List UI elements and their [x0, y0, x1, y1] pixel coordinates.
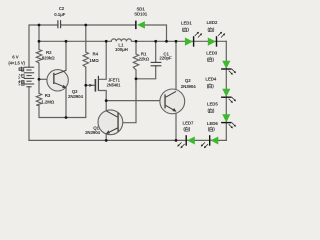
wire: R4 bottom lead to gate node: [85, 67, 87, 85]
wire: Q3 collector up to rail2: [65, 41, 67, 70]
svg-text:LED2: LED2: [207, 20, 218, 25]
svg-text:2N3904: 2N3904: [181, 84, 196, 89]
svg-text:LED7: LED7: [183, 121, 194, 126]
LED5: [221, 114, 236, 128]
diode SD1 SD101 schottky: [135, 21, 145, 30]
svg-text:1MΩ: 1MΩ: [89, 58, 99, 63]
resistor R1 22k: [133, 54, 138, 70]
wire: rail2 main horizontal: [39, 40, 111, 42]
池: [18, 74, 24, 79]
label LED7 (white): [183, 127, 190, 132]
wire: R3 bottom to emitter node line up to gate node: [39, 85, 86, 117]
junction: Q3 collector on +V rail: [65, 40, 68, 43]
wire: JFET source lead down to node: [99, 91, 106, 101]
wire: Q3 emitter down to node: [65, 88, 67, 118]
wire: C1 bottom lead to R1 node: [136, 66, 156, 79]
junction: Q1 emitter on bottom rail: [105, 139, 108, 142]
junction: Q2 collector on +V rail: [175, 40, 178, 43]
junction: R1 top on +V rail: [135, 40, 138, 43]
resistor R3 1.2M: [36, 93, 41, 105]
wire: JFET drain lead to rail2: [99, 41, 106, 79]
wire: Q3 base: [39, 78, 53, 80]
wire: Q1 emitter to bottom rail: [105, 134, 107, 141]
resistor R4 1M: [83, 52, 88, 67]
svg-text:Q2: Q2: [185, 78, 191, 83]
capacitor C2 0.1uF: [58, 20, 61, 28]
label LED3 (white): [207, 57, 214, 62]
svg-text:LED5: LED5: [207, 102, 218, 107]
svg-text:LED1: LED1: [181, 21, 192, 26]
电: [19, 67, 24, 72]
svg-text:22kΩ: 22kΩ: [139, 57, 150, 62]
capacitor C1 220pF: [151, 62, 162, 65]
wire: R2 bottom to base node to R3 top: [38, 63, 40, 93]
label battery chinese 电池组 (vertical): [18, 67, 24, 86]
wire: node to Q2 base: [106, 100, 164, 102]
svg-text:(4×1.5 V): (4×1.5 V): [8, 60, 25, 65]
label LED6 (white): [208, 127, 215, 132]
svg-text:1.2MΩ: 1.2MΩ: [41, 99, 54, 104]
junction: JFET gate / R4 node: [84, 84, 87, 87]
LED6: [201, 135, 219, 148]
svg-text:220pF: 220pF: [159, 55, 172, 60]
svg-text:SD101: SD101: [134, 12, 148, 17]
svg-text:R3: R3: [45, 93, 51, 98]
label LED1 (white): [182, 27, 189, 32]
junction: JFET drain on +V rail: [105, 40, 108, 43]
svg-text:C2: C2: [59, 6, 65, 11]
wire: right LED column: [225, 41, 227, 140]
wire: R4 top lead: [85, 25, 87, 52]
wire: Q2 collector up to rail2: [175, 41, 177, 91]
wire: bottom rail: [29, 139, 226, 141]
junction: R1/C1 node: [135, 77, 138, 80]
junction: R4 top on top rail: [84, 24, 87, 27]
LED2: [208, 32, 225, 47]
svg-text:820kΩ: 820kΩ: [42, 56, 55, 61]
svg-text:100μH: 100μH: [115, 47, 128, 52]
inductor L1 100uH: [111, 39, 131, 41]
svg-text:2N3904: 2N3904: [68, 94, 83, 99]
svg-text:LED4: LED4: [205, 76, 216, 81]
label LED5 (white): [208, 108, 215, 113]
wire: battery bottom lead: [28, 87, 30, 141]
wire: SD1 to right corner down to rail2: [145, 25, 167, 41]
LED4: [221, 89, 236, 103]
LED1: [185, 32, 202, 47]
junction: Q3 emitter / R3 node: [65, 116, 68, 119]
transistor Q1 2N3904 (mirrored, base at right): [98, 110, 123, 135]
LED7: [177, 135, 195, 148]
svg-text:R4: R4: [93, 51, 99, 56]
label LED4 (white): [207, 83, 214, 88]
battery BT1 plates: [24, 67, 34, 87]
wire: battery top lead and top-left rail: [29, 25, 58, 67]
svg-text:2N5461: 2N5461: [107, 83, 122, 88]
svg-text:2N3904: 2N3904: [85, 130, 100, 135]
wire: JFET gate lead: [86, 84, 95, 86]
transistor Q3 2N3904: [47, 70, 68, 91]
JFET1 2N5461: [89, 76, 98, 92]
junction: JFET source / Q1 collector / Q2 base node: [105, 99, 108, 102]
transistor Q2 2N3904: [160, 89, 185, 114]
junction: +V rail tap at R2 lead: [38, 40, 41, 43]
junction: C1 top on +V rail: [154, 40, 157, 43]
svg-text:6 V: 6 V: [12, 55, 18, 60]
svg-text:LED6: LED6: [207, 121, 218, 126]
resistor R2 820k: [36, 50, 41, 64]
wire: R2 top lead: [38, 25, 40, 50]
wire: Q2 emitter down to bottom rail: [175, 112, 177, 141]
wire: top rail from C2 to SD1: [61, 24, 136, 26]
svg-text:R2: R2: [46, 50, 52, 55]
junction: Q3 base node R2/R3: [38, 78, 41, 81]
svg-text:LED3: LED3: [206, 50, 217, 55]
LED3: [221, 61, 236, 75]
svg-text:0.1μF: 0.1μF: [54, 12, 65, 17]
wire: R1 top lead: [135, 41, 137, 54]
wire: C1 top lead: [155, 41, 157, 62]
wire: R1 bottom down to Q1 base: [119, 70, 136, 123]
label LED2 (white): [208, 27, 215, 32]
组: [19, 80, 25, 85]
wire: node to Q1 collector: [105, 101, 107, 111]
junction: Q2 emitter on bottom rail: [175, 139, 178, 142]
junction: R2 top on top rail: [38, 24, 41, 27]
junction: SD1 branch on +V rail: [165, 40, 168, 43]
